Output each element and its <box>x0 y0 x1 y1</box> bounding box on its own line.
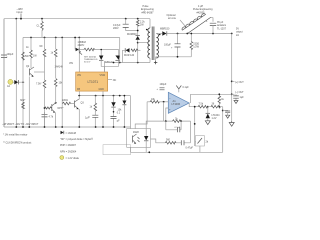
svg-text:1/2W: 1/2W <box>193 46 199 49</box>
wire rail2 left corner vertical x23 <box>22 38 24 128</box>
svg-text:= 1.2V diode: = 1.2V diode <box>66 157 80 160</box>
svg-text:*: * <box>7 56 8 59</box>
node junction rail2 x79.3 <box>78 37 80 39</box>
inductor L1 air core coil <box>182 14 211 34</box>
transformer T1 core <box>152 27 154 61</box>
node junction y95.6 x113.5 <box>113 95 115 97</box>
svg-text:VIN: VIN <box>69 62 73 65</box>
capacitor 0.1uF x113.5 <box>111 112 121 123</box>
optocoupler 4N28 box <box>127 129 151 148</box>
resistor on x44.5 upper <box>40 38 46 81</box>
svg-text:NF: NF <box>40 45 44 48</box>
IC U1 LT1071 orange box <box>76 72 108 91</box>
svg-text:GND: GND <box>99 88 105 91</box>
transistor Q4 <box>52 102 64 113</box>
capacitor snubber 0.47uF <box>113 19 138 31</box>
note footnote right 1 <box>61 131 77 135</box>
diode MBR150 rectifier <box>160 28 170 36</box>
resistor on x55.7 upper <box>51 38 58 79</box>
svg-text:7.5k*: 7.5k* <box>36 83 42 86</box>
wire Q2 emitter down x29.3 <box>28 77 30 128</box>
svg-text:4N28: 4N28 <box>133 131 139 134</box>
wire rail2 <box>23 37 120 39</box>
resistor snubber 2.2k <box>136 19 145 36</box>
node output label <box>236 28 243 37</box>
resistor chain R 3.6k <box>208 103 223 109</box>
diode MUR840 snubber <box>127 33 140 63</box>
node junction fb x165.8 <box>165 120 167 122</box>
resistor 10k op-amp input <box>147 98 168 103</box>
trimpot box <box>195 136 209 153</box>
wire sub-branch feed x75.1 <box>74 38 76 50</box>
wire secondary bottom stub <box>155 57 157 58</box>
node junction 150 top <box>190 33 192 35</box>
wire x194.7 vertical <box>194 107 196 136</box>
svg-text:= 1N4148: = 1N4148 <box>66 132 77 135</box>
svg-text:(+) OUT: (+) OUT <box>235 81 244 84</box>
resistor on x44.5 lower <box>36 80 46 127</box>
wire chain corner down x222.7 <box>222 107 224 153</box>
resistor on x31 <box>26 38 37 69</box>
wire rail2 corner down x119.7 <box>119 38 121 63</box>
node junction right rail y94.3 <box>231 93 233 95</box>
capacitor C1 input <box>1 19 14 127</box>
capacitor 0.47uF fb <box>181 140 193 149</box>
wire right rail x231.7 down <box>231 34 233 122</box>
wire fb row3 <box>151 139 191 143</box>
wire input corner from below <box>135 102 147 129</box>
node junction right rail y81.4 <box>231 81 233 83</box>
svg-text:2A: 2A <box>236 34 239 37</box>
node plus mark <box>154 61 157 64</box>
wire opto collector up <box>130 96 132 129</box>
wire secondary common corner down <box>155 57 157 61</box>
resistor 100 ohm horizontal <box>84 48 119 51</box>
node junction rail1 x21 <box>20 18 22 20</box>
resistor 220 base <box>62 99 75 105</box>
wire fb verticals <box>166 121 191 143</box>
node junction chain <box>207 106 209 108</box>
svg-text:hFE*: hFE* <box>20 99 25 102</box>
diode x124.4 <box>118 96 127 127</box>
node junction rail1 x125.7 <box>125 18 127 20</box>
wire slinky ends <box>211 17 213 21</box>
transistor Q3 <box>75 96 85 127</box>
resistor on x23 <box>22 52 30 60</box>
svg-text:"NF" = polyend diode = Mylar®: "NF" = polyend diode = Mylar® <box>60 138 93 141</box>
node junction rail1 x137.7 <box>137 18 139 20</box>
node junction y95.6 x119.7 <box>119 95 121 97</box>
node Q1 arrow <box>79 52 82 55</box>
capacitor 100uF output <box>164 34 181 57</box>
reference D LT1004 yellow circle <box>7 79 24 88</box>
wire primary bottom <box>149 58 151 63</box>
wire fb top rail y121.1 <box>164 120 191 122</box>
wire vertical x16.3 <box>15 19 17 127</box>
node junction y95.6 x79.3 <box>78 95 80 97</box>
svg-text:A1: A1 <box>173 99 177 103</box>
wire feedback sense y94.3 <box>191 94 232 103</box>
node junction y95.6 x95.6 <box>95 95 97 97</box>
wire opto emitter down <box>130 147 132 152</box>
wire output rail y33.5 <box>167 33 232 35</box>
node junction rail1 x16 <box>15 18 17 20</box>
node junction out x177.5 <box>177 33 179 35</box>
resistor base feed y108 <box>44 107 52 109</box>
wire from diodes to Vsw riser <box>104 66 106 71</box>
svg-text:MUR840: MUR840 <box>127 33 137 36</box>
node junction rail1 x42 <box>41 18 43 20</box>
capacitor on x44.5 <box>42 112 54 127</box>
node junction rail2 x31 <box>30 37 32 39</box>
svg-text:1µF: 1µF <box>240 96 245 99</box>
wire primary top riser <box>149 19 151 28</box>
wire rail1 -48V top rail <box>4 18 150 20</box>
diode MUR120 clamp <box>123 48 141 62</box>
resistor chain R 7.5k <box>198 103 208 109</box>
node junction vsw x119.7 <box>119 62 121 64</box>
wire x62.2 down <box>61 38 63 128</box>
node +OUT stub <box>232 81 245 84</box>
svg-text:LT1006: LT1006 <box>172 102 181 106</box>
svg-text:50 mV: 50 mV <box>84 61 91 63</box>
svg-text:VSW: VSW <box>100 74 106 77</box>
svg-text:4.7k: 4.7k <box>49 116 54 119</box>
svg-text:* 1% metal film resistor: * 1% metal film resistor <box>3 134 28 137</box>
node junction x194.7 y124 <box>194 123 196 125</box>
transistor Q2 <box>26 65 34 77</box>
wire secondary common y56.8 <box>156 56 192 58</box>
wire secondary top to diode <box>156 33 162 35</box>
node junction rail2 x62.2 <box>61 37 63 39</box>
note footnote right 5 <box>60 156 80 160</box>
wire ground rail primary <box>4 126 131 128</box>
capacitor 35uF tantalum <box>206 20 227 34</box>
svg-text:200V: 200V <box>113 27 119 30</box>
node -48V input label <box>17 7 23 14</box>
node sub-branch labels <box>78 41 87 47</box>
svg-text:PNP = 2N2907: PNP = 2N2907 <box>60 144 77 147</box>
svg-text:NPN*: NPN* <box>58 107 64 110</box>
wire left vertical x4 <box>3 19 5 127</box>
node text threshold block <box>84 56 98 64</box>
svg-text:(–) OUT: (–) OUT <box>235 91 244 94</box>
resistor 150 output <box>190 34 200 57</box>
resistor 560 fb <box>165 139 176 145</box>
node junction rail2 x44.5 <box>44 37 46 39</box>
wire minus input down to fb <box>163 102 165 121</box>
svg-text:#42905: #42905 <box>197 11 206 14</box>
node junction bottom x149.3 <box>148 151 150 153</box>
wire op-amp supply stub <box>176 86 189 93</box>
node junction sec common <box>177 56 179 58</box>
svg-text:MUR 120: MUR 120 <box>124 54 135 57</box>
node junction gnd dots <box>15 126 125 128</box>
svg-text:560: 560 <box>166 139 171 142</box>
wire plus input from below <box>166 108 169 121</box>
diode sub-branch <box>76 48 84 52</box>
wire FB row y95.6 <box>78 95 131 97</box>
svg-text:NPN = 2N2904: NPN = 2N2904 <box>60 150 77 153</box>
wire Vsw horizontal y62.5 <box>105 62 151 64</box>
svg-text:air core: air core <box>168 17 177 20</box>
capacitor right of rail <box>233 94 244 103</box>
node junction y95.6 x103 <box>102 95 104 97</box>
resistor 2k feedback <box>173 118 181 123</box>
ground symbol zener <box>205 121 210 125</box>
wire input tick <box>20 14 22 19</box>
wire Vsw riser x104.5 <box>104 63 106 73</box>
wire bottom rail secondary <box>131 151 223 153</box>
node junction out x213 <box>212 33 214 35</box>
wire VIN riser x79.3 <box>78 38 80 73</box>
diode Db down <box>104 50 120 67</box>
svg-text:TL-1207: TL-1207 <box>217 27 227 30</box>
svg-text:7.5k: 7.5k <box>199 103 204 106</box>
svg-text:220Ω: 220Ω <box>62 99 68 102</box>
node optional air core label <box>167 14 186 27</box>
node junction snubber mid <box>137 30 139 32</box>
resistor on x95.6 <box>85 96 98 127</box>
op-amp A1 LT1006 <box>168 92 189 113</box>
node junction out x231.7 <box>231 33 233 35</box>
resistor divider top x219.3 <box>218 93 225 107</box>
wire Q2 base to x44.5 <box>34 71 45 73</box>
wire FB pin riser <box>79 91 103 96</box>
svg-text:** CLK/DIV/REC% product: ** CLK/DIV/REC% product <box>3 142 32 145</box>
wire op-amp output <box>189 103 198 107</box>
svg-text:MBR150: MBR150 <box>160 28 170 31</box>
transformer T1 primary winding <box>148 28 150 58</box>
svg-text:input: input <box>17 10 23 14</box>
svg-text:LT1071: LT1071 <box>88 80 99 84</box>
svg-text:FB: FB <box>77 88 80 91</box>
node junction op-amp minus input <box>163 101 165 103</box>
transformer T1 label <box>141 5 154 14</box>
node junction rail2 x55.7 <box>55 37 57 39</box>
wire opto LED anode riser <box>146 121 163 129</box>
zener LT1004 ref <box>206 107 221 121</box>
inductor L1 label <box>193 5 213 14</box>
resistor on x55.7 lower <box>54 79 63 128</box>
node phase dots <box>146 29 148 31</box>
svg-text:1µF*: 1µF* <box>85 116 90 119</box>
capacitor on x222.7 stub <box>222 110 230 119</box>
node junction fb x181.1 <box>180 120 182 122</box>
box annotation lower-left <box>103 145 131 155</box>
svg-text:100µF: 100µF <box>7 53 14 56</box>
node junction rail2 x75.1 <box>74 37 76 39</box>
node junction vsw x113.5 <box>113 62 115 64</box>
resistor hFE on x23 <box>20 99 25 108</box>
ground symbol right rail <box>229 121 234 126</box>
diode x113.5 down <box>111 96 115 127</box>
optocoupler LED <box>144 129 148 153</box>
capacitor op-amp bypass <box>157 83 167 91</box>
transformer T1 secondary winding <box>156 34 158 59</box>
svg-text:#PE-64287: #PE-64287 <box>142 11 155 14</box>
optocoupler phototransistor <box>133 134 140 144</box>
wire VC stub NC <box>108 79 117 82</box>
wire x103 vertical <box>102 96 104 127</box>
svg-text:100µF: 100µF <box>160 83 167 86</box>
svg-text:1.2V: 1.2V <box>212 117 217 120</box>
capacitor 1uF feedback <box>166 127 181 132</box>
node -OUT stub <box>232 91 244 94</box>
node junction y95.6 x124.4 <box>124 95 126 97</box>
svg-text:NC: NC <box>113 79 117 82</box>
resistor CL rail1-rail2 <box>37 19 44 38</box>
node junction x194.7 top <box>194 106 196 108</box>
svg-text:0.1µF: 0.1µF <box>183 86 190 89</box>
svg-text:0.47µF: 0.47µF <box>186 147 194 150</box>
node junction vsw x137.7 <box>137 62 139 64</box>
svg-text:40kHz: 40kHz <box>78 44 86 47</box>
svg-text:VIN: VIN <box>77 74 81 77</box>
diode Da down <box>99 49 119 67</box>
svg-text:–48 VBATT –40V TO –60V INPUT: –48 VBATT –40V TO –60V INPUT <box>2 123 39 126</box>
node junction out x187.3 <box>186 33 188 35</box>
wire clamp to primary tap <box>137 42 149 44</box>
